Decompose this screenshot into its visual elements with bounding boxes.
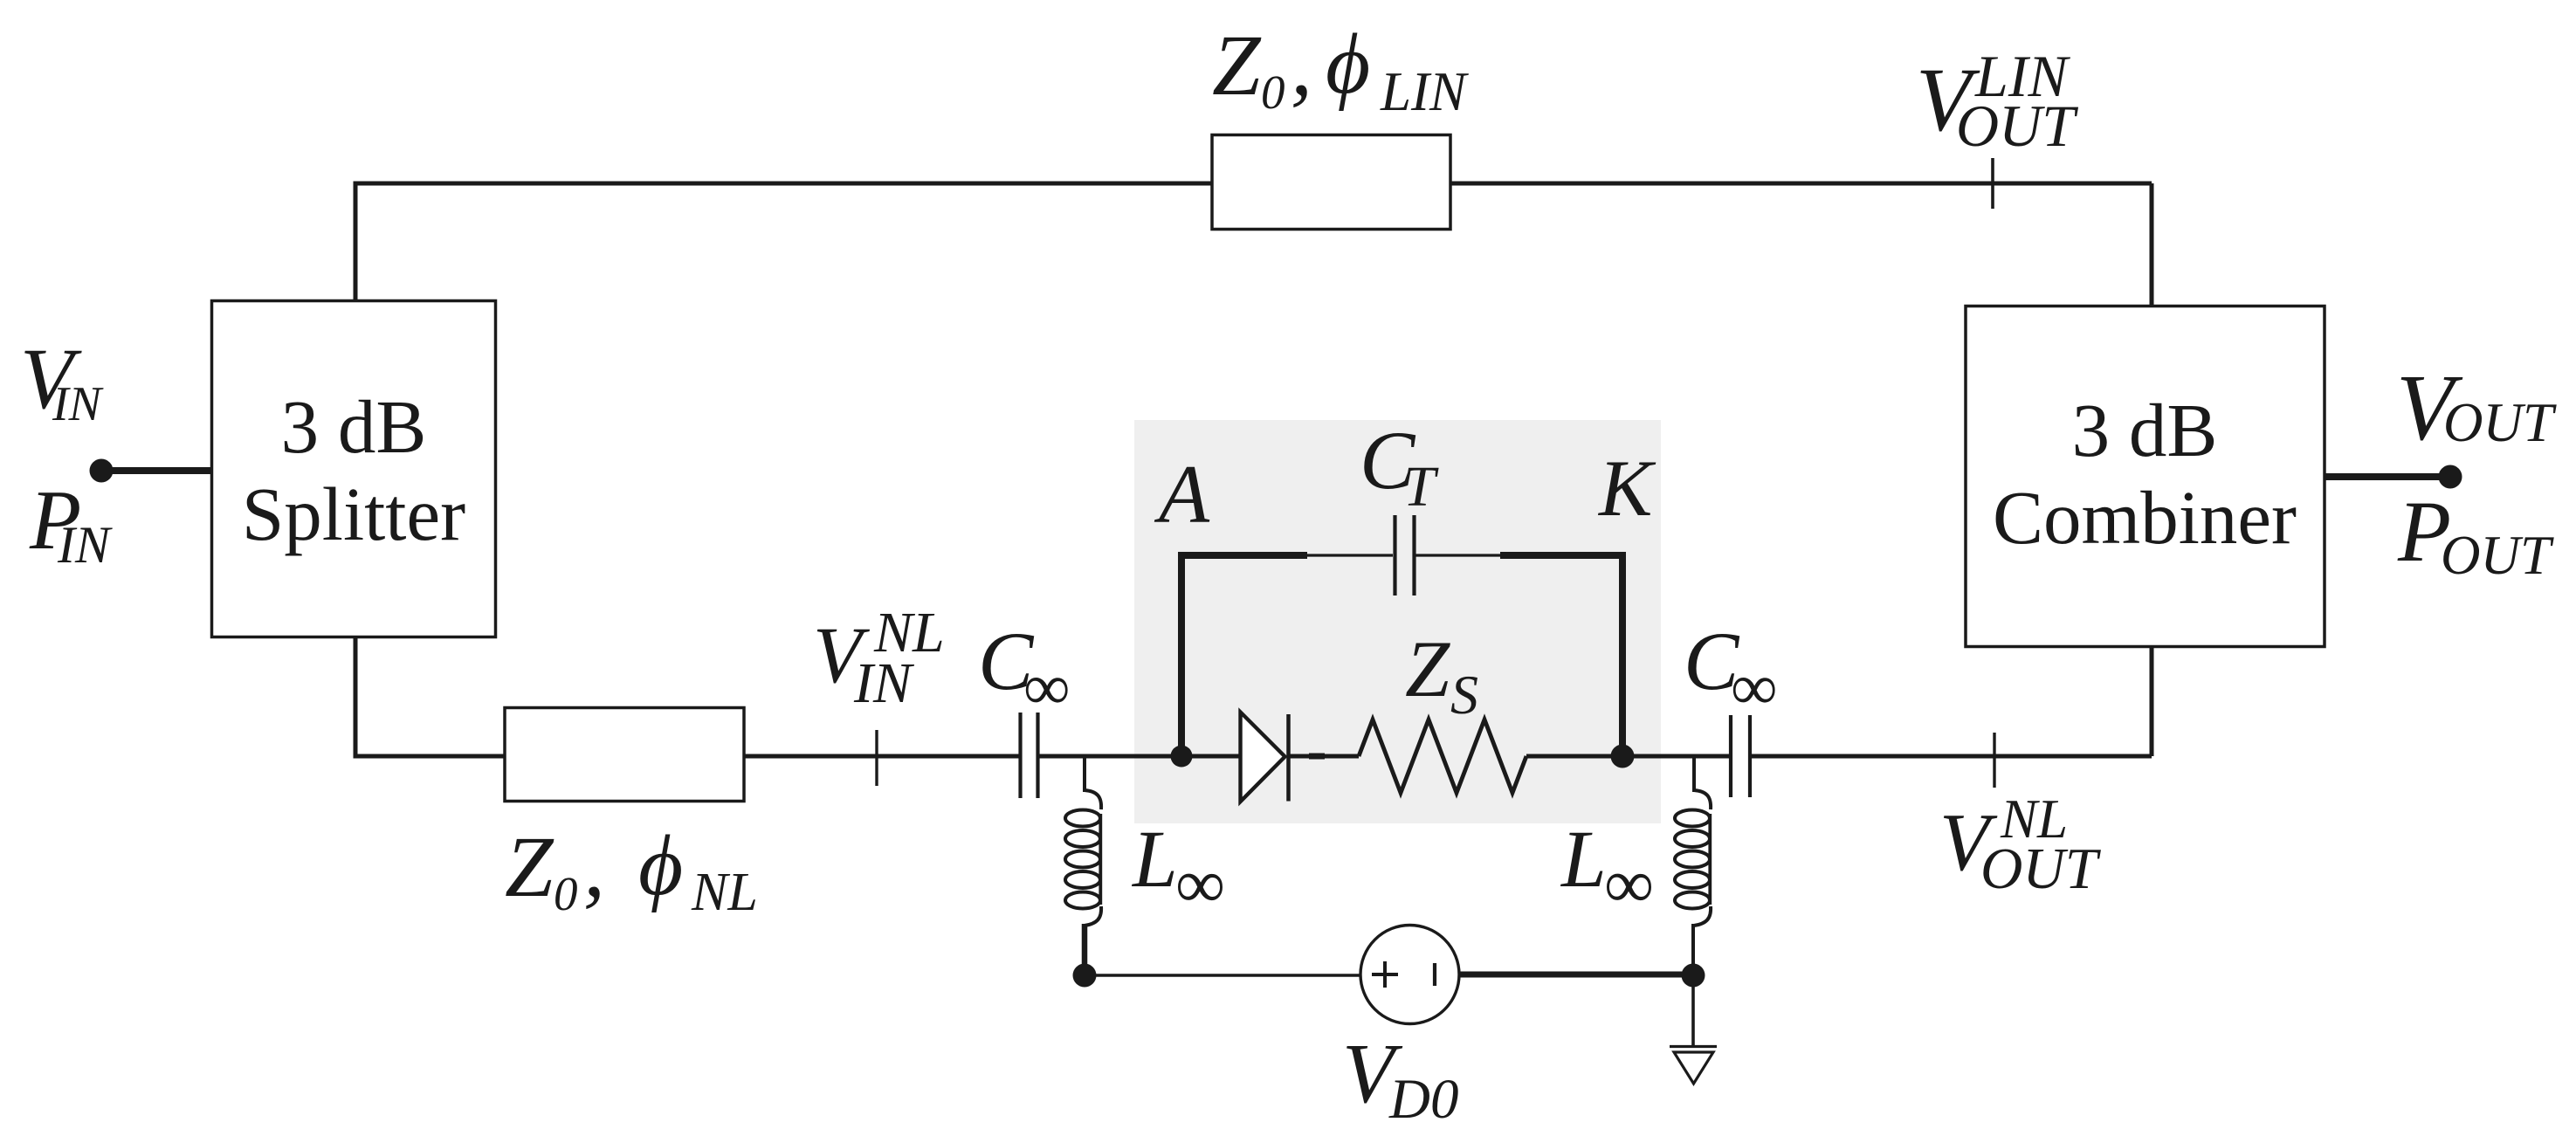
wire bias left to source bbox=[1085, 974, 1361, 976]
svg-text:T: T bbox=[1403, 455, 1439, 519]
svg-text:3 dB: 3 dB bbox=[2072, 388, 2218, 472]
resistor ZS zigzag bbox=[1359, 719, 1526, 793]
svg-text:D0: D0 bbox=[1388, 1068, 1458, 1131]
label CT bbox=[1360, 414, 1439, 519]
label Z0, phi_NL bbox=[505, 818, 758, 922]
svg-text:∞: ∞ bbox=[1604, 846, 1654, 923]
svg-text:Z: Z bbox=[505, 818, 554, 915]
label PIN bbox=[29, 473, 113, 574]
wire linear line to combiner bbox=[1450, 182, 2152, 186]
label C-inf left bbox=[978, 615, 1070, 724]
svg-text:L: L bbox=[1560, 815, 1607, 905]
node bias right dot bbox=[1682, 964, 1705, 988]
node K dot bbox=[1611, 745, 1635, 768]
svg-text:0: 0 bbox=[554, 867, 578, 920]
svg-text:L: L bbox=[1131, 815, 1178, 905]
wire top loop right bbox=[1415, 554, 1502, 556]
ground stem bbox=[1691, 975, 1695, 1046]
inductor L-inf right bbox=[1675, 756, 1711, 969]
wire splitter bottom to NL line bbox=[355, 637, 505, 756]
svg-text:0: 0 bbox=[1261, 65, 1285, 119]
label VOUT_NL bbox=[1939, 788, 2102, 901]
node bias left dot bbox=[1073, 964, 1097, 988]
svg-text:3 dB: 3 dB bbox=[281, 384, 427, 469]
svg-text:ϕ: ϕ bbox=[638, 818, 683, 913]
label VD0 bbox=[1342, 1027, 1458, 1131]
voltage source VD0 circle bbox=[1360, 926, 1459, 1024]
svg-text:OUT: OUT bbox=[1980, 837, 2102, 901]
wire node A up bbox=[1178, 552, 1185, 756]
svg-text:S: S bbox=[1450, 664, 1478, 726]
label POUT bbox=[2397, 483, 2554, 586]
svg-text:IN: IN bbox=[853, 651, 915, 715]
node VIN_NL tick bbox=[875, 730, 878, 786]
wire resistor to node K bbox=[1526, 754, 1622, 759]
wire diode to resistor bbox=[1288, 754, 1359, 759]
svg-text:IN: IN bbox=[52, 377, 104, 431]
wire input to splitter bbox=[101, 467, 211, 474]
diode D cathode bar bbox=[1286, 714, 1291, 802]
svg-text:OUT: OUT bbox=[2441, 525, 2554, 586]
svg-text:LIN: LIN bbox=[1380, 61, 1469, 122]
wire splitter top to linear line bbox=[355, 183, 1212, 300]
label ZS bbox=[1405, 624, 1478, 726]
label VIN bbox=[20, 330, 104, 431]
wire combiner output bbox=[2324, 473, 2450, 480]
svg-text:,: , bbox=[1291, 17, 1312, 114]
node A dot bbox=[1171, 746, 1193, 768]
svg-text:Z: Z bbox=[1405, 624, 1450, 713]
node VOUT_LIN tick bbox=[1991, 158, 1994, 209]
svg-text:K: K bbox=[1597, 444, 1656, 533]
capacitor C-inf right bbox=[1731, 715, 1750, 797]
svg-text:ϕ: ϕ bbox=[1326, 17, 1370, 112]
node VOUT terminal dot bbox=[2439, 465, 2462, 489]
svg-text:OUT: OUT bbox=[1956, 93, 2078, 159]
label Z0, phi_LIN bbox=[1212, 17, 1469, 122]
wire node K to C-inf right bbox=[1622, 754, 1730, 759]
wire dash artifact bbox=[1309, 754, 1325, 760]
svg-text:NL: NL bbox=[691, 863, 758, 922]
svg-text:OUT: OUT bbox=[2443, 392, 2557, 453]
svg-text:A: A bbox=[1154, 448, 1210, 540]
3 dB combiner box bbox=[1966, 306, 2325, 647]
wire NL line to C-inf bbox=[744, 754, 1019, 759]
transmission line Z0 phi_NL box bbox=[505, 708, 744, 802]
svg-text:,: , bbox=[583, 818, 605, 915]
svg-text:∞: ∞ bbox=[1175, 846, 1225, 923]
node VOUT_NL tick bbox=[1993, 733, 1995, 788]
svg-text:∞: ∞ bbox=[1731, 651, 1777, 724]
wire node K down bbox=[1619, 552, 1626, 756]
wire C-inf to node A bbox=[1040, 754, 1182, 759]
diode D triangle bbox=[1241, 713, 1285, 802]
ground symbol bbox=[1670, 1047, 1717, 1084]
voltage source minus terminal bbox=[1433, 963, 1436, 986]
label VIN_NL bbox=[813, 601, 945, 715]
wire C-inf right to combiner bbox=[1752, 754, 2152, 759]
wire top loop left bbox=[1178, 552, 1307, 559]
svg-text:Splitter: Splitter bbox=[242, 472, 465, 556]
svg-text:Z: Z bbox=[1212, 17, 1262, 114]
wire source to bias right (thick) bbox=[1458, 972, 1693, 978]
transmission line Z0 phi_LIN box bbox=[1212, 135, 1450, 230]
svg-text:IN: IN bbox=[57, 516, 113, 574]
capacitor CT bbox=[1395, 515, 1415, 596]
wire down into combiner top bbox=[2150, 183, 2154, 307]
3 dB splitter box bbox=[212, 301, 496, 637]
diode D anode wire bbox=[1181, 754, 1240, 759]
inductor L-inf left bbox=[1065, 756, 1101, 969]
diode shaded panel bbox=[1134, 420, 1661, 823]
label VOUT bbox=[2396, 356, 2557, 460]
capacitor C-inf left bbox=[1021, 713, 1038, 798]
label VOUT_LIN bbox=[1916, 43, 2078, 159]
voltage source plus terminal bbox=[1372, 961, 1398, 988]
node VIN terminal dot bbox=[90, 459, 114, 483]
svg-text:∞: ∞ bbox=[1023, 651, 1070, 724]
svg-text:Combiner: Combiner bbox=[1993, 475, 2297, 560]
label C-inf right bbox=[1684, 615, 1777, 724]
label L-inf left bbox=[1131, 815, 1225, 923]
wire up into combiner bottom bbox=[2150, 647, 2154, 756]
label L-inf right bbox=[1560, 815, 1654, 923]
